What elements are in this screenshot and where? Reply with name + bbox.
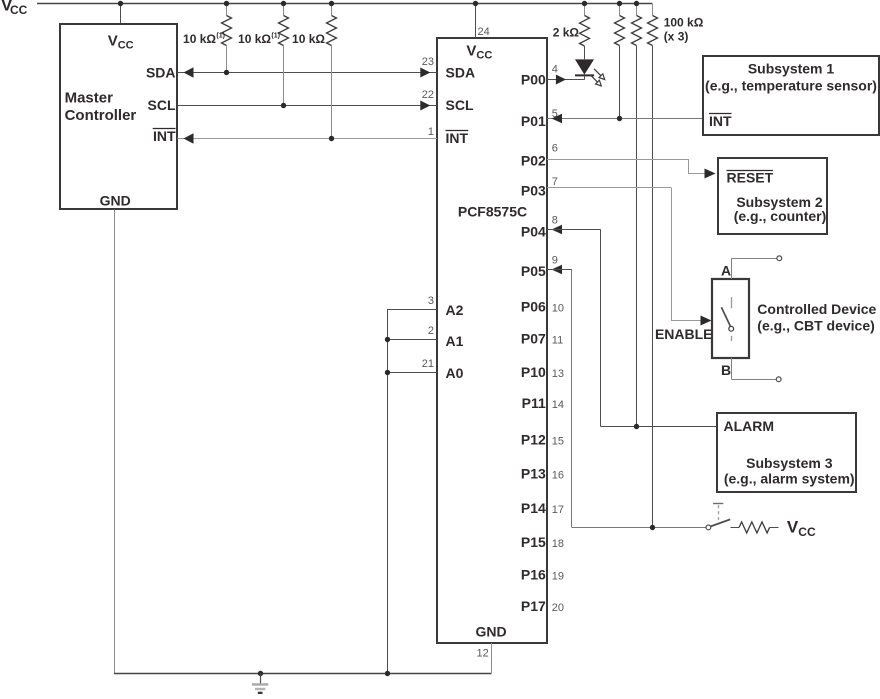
- svg-text:V: V: [466, 43, 476, 60]
- svg-text:SCL: SCL: [148, 97, 176, 113]
- svg-text:8: 8: [552, 215, 558, 227]
- svg-text:GND: GND: [100, 192, 131, 208]
- svg-text:2: 2: [428, 325, 434, 337]
- svg-text:ENABLE: ENABLE: [655, 326, 713, 342]
- svg-text:P07: P07: [521, 331, 546, 347]
- svg-text:Subsystem 3: Subsystem 3: [746, 455, 833, 471]
- svg-text:CC: CC: [798, 525, 816, 539]
- svg-text:15: 15: [552, 435, 564, 447]
- svg-text:16: 16: [552, 470, 564, 482]
- svg-text:CC: CC: [118, 39, 134, 51]
- svg-text:P00: P00: [521, 72, 546, 88]
- svg-text:Master: Master: [65, 89, 114, 106]
- svg-text:P02: P02: [521, 152, 546, 168]
- svg-text:22: 22: [422, 89, 434, 101]
- svg-text:RESET: RESET: [727, 170, 774, 186]
- svg-text:7: 7: [552, 176, 558, 188]
- svg-text:19: 19: [552, 571, 564, 583]
- svg-text:2 kΩ: 2 kΩ: [553, 25, 580, 39]
- svg-text:6: 6: [552, 143, 558, 155]
- svg-text:100 kΩ: 100 kΩ: [664, 15, 704, 29]
- svg-text:CC: CC: [476, 50, 492, 62]
- svg-text:B: B: [721, 362, 731, 378]
- svg-text:V: V: [108, 32, 118, 49]
- svg-text:9: 9: [552, 255, 558, 267]
- svg-text:P05: P05: [521, 263, 546, 279]
- svg-text:PCF8575C: PCF8575C: [458, 204, 527, 220]
- svg-text:3: 3: [428, 295, 434, 307]
- svg-text:P11: P11: [522, 395, 546, 411]
- svg-text:20: 20: [552, 602, 564, 614]
- svg-text:P12: P12: [521, 431, 546, 447]
- svg-text:P06: P06: [521, 298, 546, 314]
- svg-text:P04: P04: [521, 224, 546, 240]
- svg-text:A: A: [721, 263, 731, 279]
- svg-text:V: V: [787, 518, 799, 537]
- svg-text:10: 10: [552, 302, 564, 314]
- svg-text:P16: P16: [521, 567, 546, 583]
- svg-text:Controller: Controller: [65, 107, 137, 124]
- svg-text:INT: INT: [709, 113, 732, 129]
- svg-text:(e.g., temperature sensor): (e.g., temperature sensor): [705, 78, 877, 94]
- svg-text:P17: P17: [521, 598, 546, 614]
- svg-text:P01: P01: [521, 113, 546, 129]
- svg-text:INT: INT: [446, 130, 469, 146]
- svg-text:Controlled Device: Controlled Device: [757, 301, 876, 317]
- svg-text:P13: P13: [521, 466, 546, 482]
- svg-text:GND: GND: [475, 624, 506, 640]
- svg-text:ALARM: ALARM: [724, 418, 775, 434]
- svg-text:P10: P10: [521, 364, 546, 380]
- svg-text:P03: P03: [521, 183, 546, 199]
- svg-text:18: 18: [552, 538, 564, 550]
- svg-text:SCL: SCL: [446, 97, 474, 113]
- svg-text:(e.g., alarm system): (e.g., alarm system): [724, 471, 855, 487]
- svg-text:SDA: SDA: [146, 65, 176, 81]
- svg-text:23: 23: [422, 56, 434, 68]
- svg-text:(e.g., CBT device): (e.g., CBT device): [757, 317, 874, 333]
- svg-text:4: 4: [552, 64, 558, 76]
- svg-text:10 kΩ: 10 kΩ: [183, 32, 216, 46]
- svg-text:11: 11: [552, 335, 563, 347]
- svg-text:21: 21: [422, 358, 434, 370]
- svg-text:(1): (1): [216, 33, 225, 40]
- svg-text:A0: A0: [446, 365, 464, 381]
- svg-text:1: 1: [428, 126, 434, 138]
- svg-text:17: 17: [552, 504, 564, 516]
- svg-text:CC: CC: [10, 3, 28, 17]
- svg-text:Subsystem 1: Subsystem 1: [748, 60, 835, 76]
- svg-text:P15: P15: [521, 534, 546, 550]
- svg-text:SDA: SDA: [446, 65, 476, 81]
- svg-text:14: 14: [552, 399, 564, 411]
- svg-text:INT: INT: [153, 128, 176, 144]
- svg-text:24: 24: [478, 26, 490, 38]
- svg-text:A1: A1: [446, 333, 464, 349]
- svg-text:13: 13: [552, 368, 564, 380]
- svg-text:10 kΩ: 10 kΩ: [292, 32, 325, 46]
- svg-text:(x 3): (x 3): [664, 30, 689, 44]
- svg-text:(e.g., counter): (e.g., counter): [734, 208, 827, 224]
- svg-text:(1): (1): [271, 33, 280, 40]
- svg-text:12: 12: [477, 648, 489, 660]
- svg-text:A2: A2: [446, 302, 464, 318]
- svg-text:P14: P14: [521, 500, 546, 516]
- svg-text:10 kΩ: 10 kΩ: [238, 32, 271, 46]
